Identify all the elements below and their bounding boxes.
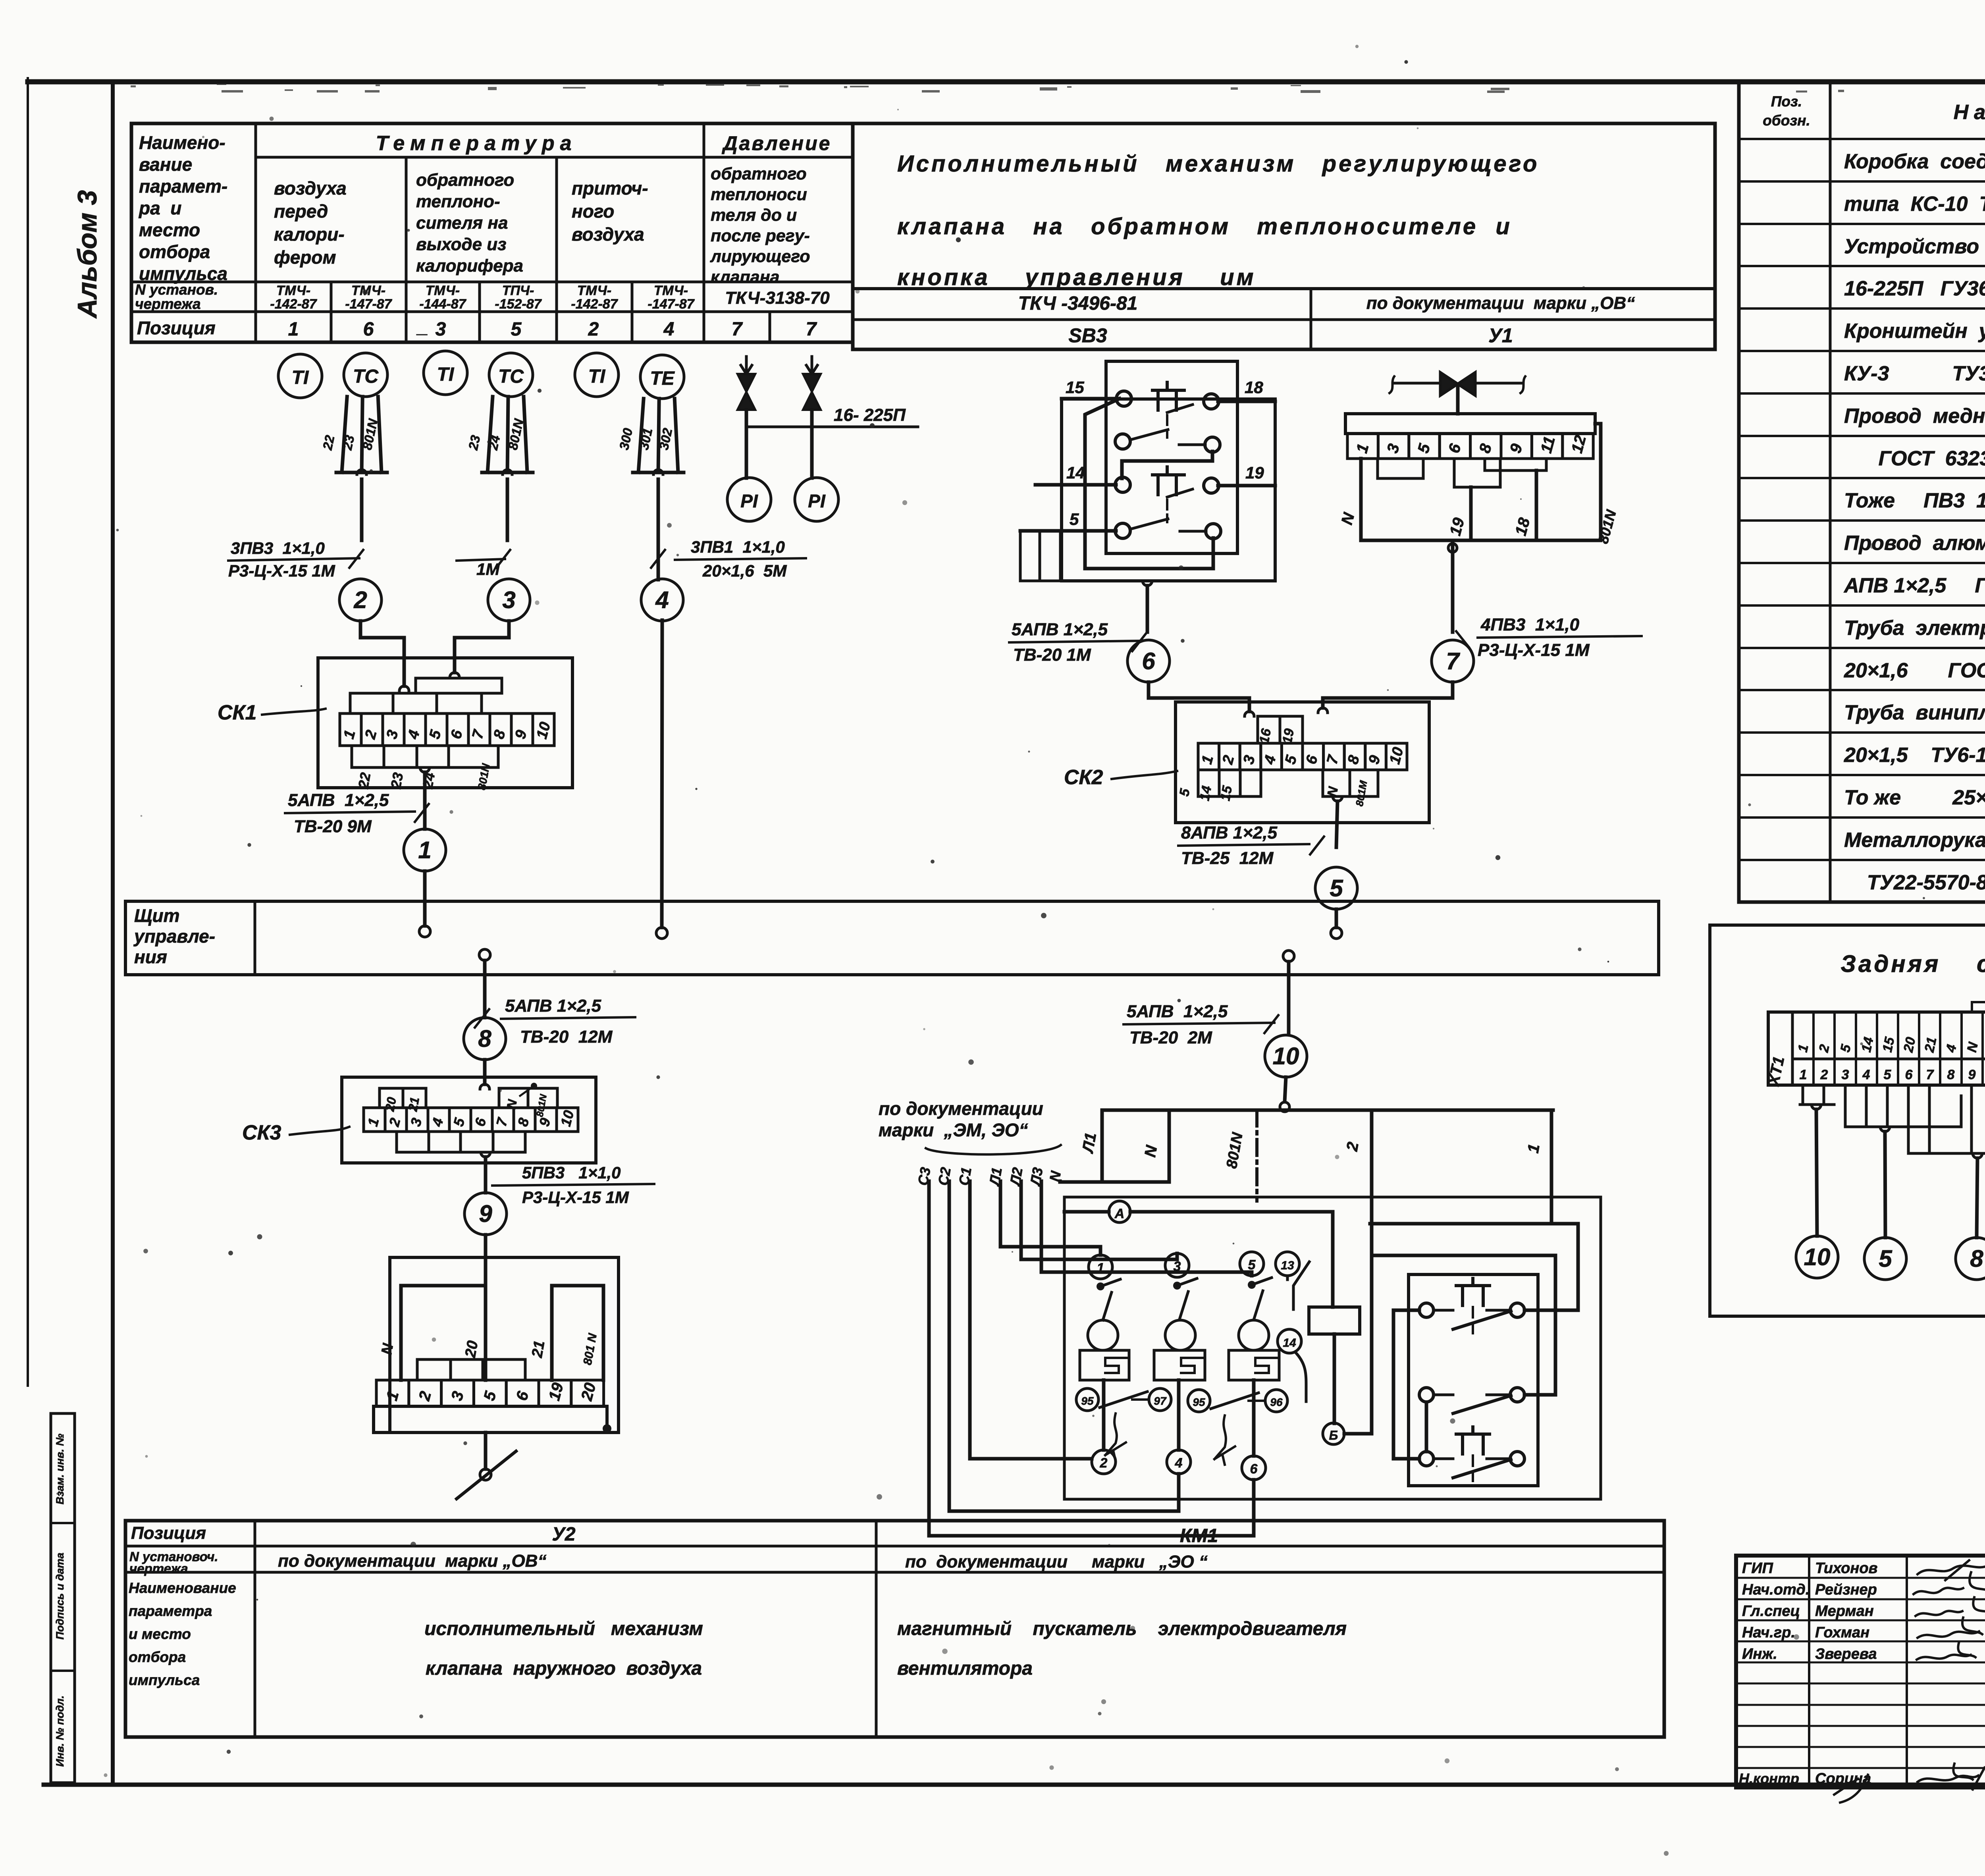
aux wiring left [1393,1310,1419,1459]
panel entry dot node5 wire [1331,927,1342,939]
svg-text:вентилятора: вентилятора [897,1658,1033,1679]
svg-text:18: 18 [1245,378,1263,397]
SB3 wire 18 [1218,400,1275,403]
aux contact unit 1 [1419,1303,1434,1317]
SB3 wire 5 [1020,529,1116,533]
svg-text:ния: ния [134,947,167,967]
wire СК3 down [484,1157,488,1193]
svg-text:А: А [1114,1206,1125,1221]
svg-text:N установ.: N установ. [135,281,218,298]
svg-text:Наименование: Наименование [1954,101,1985,124]
svg-text:5: 5 [1070,510,1079,528]
wire pole3 down [1252,1380,1256,1456]
У1 pipe line with breaks [1393,382,1523,385]
svg-text:97: 97 [1154,1395,1167,1407]
wire node6 to СК2 [1149,682,1249,711]
rear wall box Задняя стенка [1710,925,1985,1316]
svg-text:3ПВ1 1×1,0: 3ПВ1 1×1,0 [691,538,785,556]
svg-text:по документации марки „: по документации марки „ЭО “ [905,1552,1208,1571]
parts list table [1739,82,1985,902]
sensor TC1 [344,353,387,397]
svg-text:20: 20 [1900,1036,1918,1054]
cable fan TC2 wires 23 24 801N [488,397,493,472]
wire Л2 [1021,1181,1177,1259]
thermal relay 3 [1229,1350,1279,1380]
svg-text:ТМЧ-: ТМЧ- [577,283,611,298]
СК1 upper jumper cells [350,693,482,713]
svg-text:Р3-Ц-Х-15 1М: Р3-Ц-Х-15 1М [522,1188,629,1207]
thermal hook 1 [1105,1413,1126,1461]
У2 output wire [484,1433,488,1469]
parameter table [131,123,853,342]
У2 bottom bar [374,1406,607,1433]
svg-text:обозн.: обозн. [1763,112,1810,129]
cable fan TC1 wires 22 23 801N [342,397,347,472]
wire node8 to СК3 [483,1060,487,1084]
svg-text:Коробка соединительная: Коробка соединительная [1844,150,1985,173]
node 3 [488,579,530,621]
svg-text:клапана: клапана [711,268,780,287]
node 2 [339,579,382,621]
wire Л3 [1041,1181,1252,1276]
aux contact unit 3 [1419,1452,1434,1466]
push button SB3 inner case [1106,361,1237,553]
frame bottom border [44,1783,1985,1787]
svg-text:магнитный пускатель элек: магнитный пускатель электродвигателя [897,1618,1347,1639]
svg-text:ТМЧ-: ТМЧ- [654,283,688,298]
svg-text:ТВ-25 12М: ТВ-25 12М [1181,848,1274,868]
thermal relay 2 [1154,1350,1205,1380]
svg-text:Б: Б [1329,1428,1338,1442]
thermal contact 95-97 [1076,1388,1098,1411]
pole contact 3 [1165,1253,1189,1277]
svg-text:SВ3: SВ3 [1068,324,1107,347]
junction box СК3 [342,1077,596,1163]
svg-text:С1: С1 [956,1166,975,1187]
svg-text:Зверева: Зверева [1815,1646,1877,1662]
node 5 rear [1864,1238,1906,1280]
svg-text:по документации марки „ОВ“: по документации марки „ОВ“ [1366,293,1635,313]
signatures [1918,1560,1985,1580]
svg-text:2: 2 [353,586,367,613]
svg-text:10: 10 [1273,1043,1299,1069]
panel entry dot TE wire [656,927,667,939]
node 8 rear [1956,1238,1985,1280]
check valve 1 [741,357,752,374]
aux wiring right [1524,1309,1578,1312]
svg-text:Тихонов: Тихонов [1815,1560,1878,1577]
coil КМ1 [1309,1307,1360,1334]
SB3 wire 15 [1062,397,1117,401]
svg-text:23: 23 [387,771,407,791]
SB3 wire 19 [1218,484,1275,488]
svg-text:ТВ-20 9М: ТВ-20 9М [294,817,372,836]
svg-text:чертежа: чертежа [129,1561,188,1576]
svg-text:7: 7 [732,319,743,340]
svg-text:калори-: калори- [274,224,345,245]
svg-text:обратного: обратного [416,170,514,190]
svg-text:-152-87: -152-87 [495,297,542,312]
svg-text:Мерман: Мерман [1815,1603,1874,1620]
svg-text:лирующего: лирующего [710,247,810,266]
svg-text:1: 1 [1800,1067,1807,1082]
svg-text:16-225П ГУ36.22.19.05-005-85: 16-225П ГУ36.22.19.05-005-85 [1844,277,1985,300]
svg-text:7: 7 [806,319,817,340]
svg-text:6: 6 [363,319,374,340]
svg-text:ТВ-20 2М: ТВ-20 2М [1129,1028,1212,1047]
svg-text:6: 6 [1905,1067,1913,1082]
bus entry circle [1280,1102,1289,1112]
svg-text:Устройство отборное: Устройство отборное [1844,235,1985,258]
СК1 terminal strip [340,713,554,746]
sensor TC2 [489,353,533,397]
svg-text:5: 5 [1884,1067,1892,1082]
wire to node 3 [506,479,509,540]
title block [1736,1556,1985,1787]
svg-text:после регу-: после регу- [711,226,810,245]
thermal relay 1 [1080,1350,1129,1380]
wire У1 down [1451,540,1455,632]
junction box СК1 [318,658,572,788]
СК3 upper cells [380,1088,426,1108]
svg-text:4: 4 [1175,1456,1183,1471]
svg-text:4: 4 [1862,1067,1870,1082]
СК2 lower cells [1198,770,1261,796]
СК3 exit junction [481,1152,490,1157]
У1 wire 19 [1469,487,1473,540]
svg-text:по документации марки „ОВ“: по документации марки „ОВ“ [278,1551,546,1571]
sensor TE [640,355,684,399]
node 10 rear [1796,1236,1838,1278]
description box [853,123,1715,349]
node Б [1333,1334,1336,1423]
svg-text:Металлорукав Р3-Ц-Х-15: Металлорукав Р3-Ц-Х-15 [1844,829,1985,852]
svg-text:Гл.спец: Гл.спец [1742,1603,1800,1620]
svg-text:ТКЧ-3138-70: ТКЧ-3138-70 [725,288,830,308]
svg-text:отбора: отбора [139,241,210,262]
wire SB3 down [1146,586,1149,632]
svg-text:2: 2 [1820,1067,1828,1082]
wire to node 5 rear [1885,1132,1885,1238]
SB3 exit junction [1143,581,1152,586]
sheet top border [28,79,1985,85]
panel exit dot to node 10 [1283,951,1294,962]
svg-text:_: _ [416,316,428,337]
svg-text:Провод медный ПВ1 1×1,0: Провод медный ПВ1 1×1,0 [1844,405,1985,428]
wire node2 to СК1 [360,621,404,686]
svg-text:То же 25×1,5: То же 25×1,5 [1844,786,1985,809]
pole contact 5 [1240,1252,1264,1276]
У2 terminal strip [376,1380,604,1406]
SB3 wire 14 [1035,483,1116,487]
jumper group cells 3-5 [1845,1085,1961,1127]
svg-text:импульса: импульса [139,263,227,284]
wire СК1 to node 1 [423,772,427,829]
aux contact unit 2 [1419,1388,1434,1402]
svg-text:исполнительный механизм: исполнительный механизм [424,1618,703,1639]
svg-text:Позиция: Позиция [137,318,216,338]
svg-text:95: 95 [1193,1396,1205,1408]
svg-text:15: 15 [1218,784,1235,802]
svg-text:-147-87: -147-87 [345,297,392,312]
node 1 [404,829,446,871]
SB3 contact circles [1116,391,1131,406]
SB3 contact blade 1 [1130,430,1168,440]
wire pole1 down [1102,1380,1106,1450]
wire to node 2 [360,479,364,540]
svg-text:9: 9 [479,1200,492,1227]
svg-text:клапана на обратном тепл: клапана на обратном теплоносителе и [897,214,1512,239]
terminal strip ХТ1 [1768,1012,1985,1085]
svg-text:2: 2 [1100,1456,1108,1471]
svg-text:Р3-Ц-Х-15 1М: Р3-Ц-Х-15 1М [228,561,335,580]
СК2 upper cells 16 19 [1258,716,1303,743]
svg-text:20: 20 [462,1339,482,1359]
svg-text:С2: С2 [935,1166,954,1187]
wire 1 [1550,1110,1553,1224]
svg-text:место: место [139,220,200,240]
SB3 internal link c4-c5 [1122,451,1212,478]
svg-text:Кронштейн универсальный: Кронштейн универсальный [1844,320,1985,343]
svg-text:4: 4 [655,586,669,613]
svg-text:14: 14 [1066,463,1085,482]
wire pole2 down [1177,1380,1181,1450]
svg-text:ТКЧ -3496-81: ТКЧ -3496-81 [1018,293,1138,314]
sensor TI2 [424,351,467,395]
svg-text:ТМЧ-: ТМЧ- [276,283,310,298]
svg-text:-142-87: -142-87 [571,297,618,312]
sensor TI3 [575,353,619,397]
svg-text:23: 23 [339,434,357,452]
wire node7 to СК2 [1323,682,1453,708]
svg-text:приточ-: приточ- [572,178,648,199]
svg-text:ного: ного [572,201,614,222]
personnel table [1808,1556,1810,1787]
node 10 [1265,1035,1307,1077]
svg-text:Р3-Ц-Х-15 1М: Р3-Ц-Х-15 1М [1478,640,1590,660]
wire node A [1109,1201,1130,1222]
svg-text:ра и: ра и [138,198,181,218]
svg-text:Нач.отд.: Нач.отд. [1742,1581,1810,1598]
svg-text:5: 5 [1248,1257,1256,1273]
svg-text:Альбом 3: Альбом 3 [72,190,102,319]
wire N [1058,1181,1062,1182]
panel exit dot to node 8 [479,949,490,960]
svg-text:4: 4 [663,319,675,340]
valve stem [1456,384,1460,414]
svg-text:3: 3 [436,319,446,340]
node 6 pole [1242,1456,1266,1480]
wire node4 to panel [662,620,662,927]
svg-text:теплоноси: теплоноси [711,185,807,204]
svg-text:Нач.гр.: Нач.гр. [1742,1624,1795,1641]
svg-text:5ПВ3 1×1,0: 5ПВ3 1×1,0 [522,1163,621,1182]
svg-text:ТВ-20 1М: ТВ-20 1М [1013,645,1091,665]
svg-text:5: 5 [1330,875,1343,901]
svg-text:23: 23 [465,434,483,452]
svg-text:Поз.: Поз. [1771,93,1802,110]
frame left border [111,82,115,1785]
SB3 internal link c8-c1 [1085,399,1213,569]
pole contact 1 [1089,1255,1112,1279]
svg-text:У2: У2 [552,1524,576,1545]
svg-text:Н.контр: Н.контр [1739,1770,1799,1787]
svg-text:воздуха: воздуха [572,224,644,245]
svg-text:-142-87: -142-87 [270,297,317,312]
svg-text:15: 15 [1066,378,1084,397]
svg-text:чертежа: чертежа [135,296,201,312]
svg-text:Задняя стенка щита управл: Задняя стенка щита управления [1840,951,1985,977]
svg-text:21: 21 [529,1339,548,1359]
У1 terminal box top bar [1345,414,1595,434]
svg-text:6: 6 [1250,1461,1258,1477]
svg-text:Рейзнер: Рейзнер [1815,1581,1877,1598]
svg-text:3: 3 [1174,1259,1181,1274]
wire node5 to panel [1335,909,1338,927]
wire panel to node 8 [483,960,487,1018]
node 7 [1432,640,1474,682]
coil circle pole3 [1239,1320,1269,1350]
svg-text:Л1: Л1 [1079,1131,1100,1155]
SB3 left cable rects [1020,531,1060,581]
У2 internal wires N 20 21 801N [399,1286,403,1380]
svg-text:14: 14 [1283,1336,1296,1350]
svg-text:сителя на: сителя на [416,213,508,233]
svg-text:Наименование: Наименование [129,1580,236,1596]
У1 wire N [1359,459,1363,540]
aux contact 13 [1276,1252,1299,1276]
svg-text:кнопка управления им: кнопка управления им [897,264,1256,290]
wire panel to node 10 [1287,962,1291,1035]
svg-text:24: 24 [419,771,438,791]
svg-text:Инв. № подл.: Инв. № подл. [54,1695,66,1766]
gauge PI2 [795,478,838,521]
svg-text:3: 3 [502,586,515,613]
stray signature [1834,1775,1868,1803]
У1 jumpers below cells [1378,459,1423,478]
svg-text:СК1: СК1 [218,701,256,724]
svg-text:7: 7 [1446,648,1460,674]
svg-text:1: 1 [1097,1261,1104,1276]
svg-text:ТУ22-5570-83: ТУ22-5570-83 [1844,871,1985,894]
svg-text:Провод алюминиевый: Провод алюминиевый [1844,532,1985,555]
svg-text:4ПВ3 1×1,0: 4ПВ3 1×1,0 [1480,615,1580,634]
svg-text:клапана наружного воздуха: клапана наружного воздуха [426,1658,702,1679]
svg-text:РI: РI [808,491,826,511]
supply bus [1102,1109,1553,1112]
ХТ1 label cells [1795,1012,1985,1059]
svg-text:ТЕ: ТЕ [650,368,675,389]
svg-text:Тоже ПВ3 1×1,0: Тоже ПВ3 1×1,0 [1844,489,1985,512]
svg-text:ТПЧ-: ТПЧ- [502,283,534,298]
svg-text:5АПВ 1×2,5: 5АПВ 1×2,5 [1012,620,1108,639]
cell Л1/N [1102,1110,1169,1182]
svg-text:14: 14 [1197,785,1214,802]
svg-text:перед: перед [274,201,328,222]
У2 lever pivot [480,1469,491,1480]
bottom position table [125,1521,1664,1737]
thermal hook 2 [1214,1415,1235,1465]
node 2 pole [1092,1450,1116,1474]
svg-text:5: 5 [511,319,522,340]
svg-text:8: 8 [1947,1067,1955,1082]
coil circle pole1 [1088,1320,1118,1350]
wire 801N dash-dot [1255,1110,1258,1201]
wire 14 [1278,1329,1301,1353]
У1 terminal cells [1347,434,1593,459]
svg-text:и место: и место [129,1626,191,1642]
svg-text:выходе из: выходе из [416,235,507,254]
node 4 pole [1167,1450,1191,1474]
СК2 terminal strip [1198,743,1407,770]
SB3 button head 2 [1152,467,1184,495]
svg-text:13: 13 [1281,1259,1294,1272]
svg-text:Позиция: Позиция [131,1523,206,1543]
push button SB3 outer case [1062,399,1275,581]
left stamp sidebar [51,1413,75,1783]
wire node9 to У2 [484,1235,488,1257]
svg-text:РI: РI [740,491,758,511]
ХТ1 top jumper N [1972,1002,1985,1012]
check valve 2 [806,357,817,374]
У2 lever [457,1451,516,1499]
СК3 lower cells [397,1132,525,1152]
svg-text:фером: фером [274,247,336,268]
svg-text:8АПВ 1×2,5: 8АПВ 1×2,5 [1181,823,1278,843]
svg-text:21: 21 [1921,1036,1939,1054]
svg-text:ТС: ТС [498,366,524,387]
svg-text:Температура: Температура [376,132,577,155]
svg-text:КУ-3 ТУ362588-84: КУ-3 ТУ362588-84 [1844,362,1985,385]
cable fan TE wires 300 301 302 [638,399,644,472]
svg-text:обратного: обратного [711,164,807,183]
svg-text:Труба электросварная: Труба электросварная [1844,617,1985,640]
svg-text:3: 3 [1842,1067,1849,1082]
svg-text:1: 1 [418,837,431,863]
svg-text:воздуха: воздуха [274,178,347,199]
thermal contact 95-96 [1188,1390,1210,1412]
svg-text:20×1,6 5М: 20×1,6 5М [702,561,787,580]
jumper group cells 6-13 [1908,1085,1985,1153]
svg-text:марки „ЭМ, ЭО“: марки „ЭМ, ЭО“ [879,1120,1028,1140]
svg-text:ТМЧ-: ТМЧ- [351,283,385,298]
svg-text:20×1,6 ГОСТ 10704-76: 20×1,6 ГОСТ 10704-76 [1844,659,1985,682]
svg-text:-147-87: -147-87 [648,297,695,312]
node 4 [641,579,683,621]
svg-text:отбора: отбора [129,1649,186,1665]
svg-text:Подпись и дата: Подпись и дата [54,1553,66,1640]
svg-text:Гохман: Гохман [1815,1624,1869,1641]
svg-text:Наимено-: Наимено- [139,132,225,153]
node 5 [1315,867,1357,909]
svg-text:7: 7 [1926,1067,1935,1082]
gauge PI1 [727,478,771,521]
svg-text:СК3: СК3 [242,1121,281,1144]
svg-text:типа КС-10 ТУ36.22.19.05-006: типа КС-10 ТУ36.22.19.05-006-83 [1844,193,1985,216]
wire Л1 [1000,1181,1100,1255]
wire С3 [929,1181,1254,1536]
svg-text:8: 8 [1970,1245,1983,1272]
wire to node 8 rear [1977,1158,1977,1238]
svg-text:парамет-: парамет- [139,176,227,197]
wire node3 to СК1 [455,621,509,673]
actuator У2 box [390,1257,619,1433]
svg-text:по документации: по документации [879,1098,1043,1119]
wire СК2 down [1336,801,1337,847]
SB3 contact blade 2 [1130,519,1168,529]
svg-text:вание: вание [139,154,192,175]
wire С1 [970,1181,1092,1459]
